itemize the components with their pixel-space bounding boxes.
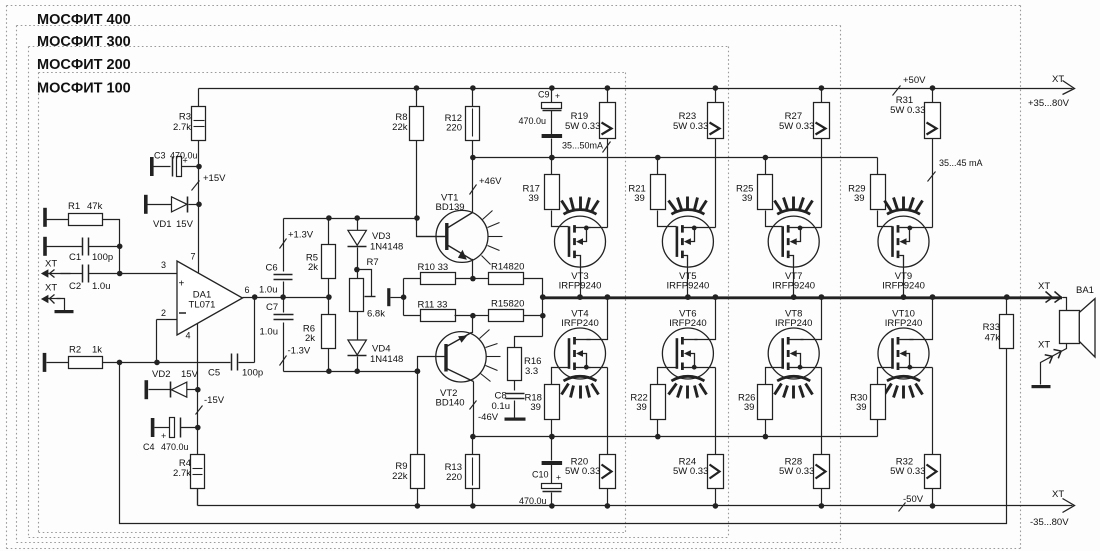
svg-text:+1.3V: +1.3V [288, 230, 314, 241]
svg-text:IRFP9240: IRFP9240 [559, 280, 602, 291]
svg-text:C5: C5 [208, 368, 220, 379]
svg-text:820: 820 [509, 262, 525, 273]
svg-text:5W 0.33: 5W 0.33 [565, 466, 600, 477]
svg-text:5W 0.33: 5W 0.33 [890, 466, 925, 477]
svg-text:2.7k: 2.7k [173, 468, 191, 479]
svg-text:VD2: VD2 [152, 369, 170, 380]
svg-text:22k: 22k [392, 122, 408, 133]
svg-text:5W 0.33: 5W 0.33 [673, 466, 708, 477]
svg-text:BA1: BA1 [1076, 285, 1094, 296]
svg-text:470.0u: 470.0u [519, 496, 547, 506]
svg-text:BD139: BD139 [436, 202, 465, 213]
svg-text:-50V: -50V [903, 494, 924, 505]
svg-text:C1: C1 [69, 252, 81, 263]
svg-text:МОСФИТ 100: МОСФИТ 100 [37, 81, 131, 97]
svg-text:5W 0.33: 5W 0.33 [565, 121, 600, 132]
svg-text:39: 39 [856, 402, 867, 413]
svg-text:-15V: -15V [204, 395, 225, 406]
svg-text:47k: 47k [985, 333, 1001, 344]
svg-text:XT: XT [1052, 74, 1064, 85]
svg-text:220: 220 [446, 123, 462, 134]
svg-text:IRFP9240: IRFP9240 [772, 280, 815, 291]
svg-text:1N4148: 1N4148 [370, 242, 403, 253]
svg-text:1.0u: 1.0u [259, 285, 278, 296]
svg-text:R2: R2 [69, 345, 81, 356]
svg-text:3: 3 [161, 260, 166, 270]
svg-text:BD140: BD140 [436, 398, 465, 409]
svg-text:R11 33: R11 33 [418, 300, 448, 311]
svg-text:15V: 15V [176, 219, 194, 230]
svg-text:XT: XT [45, 283, 57, 294]
svg-text:IRFP9240: IRFP9240 [882, 280, 925, 291]
svg-text:+46V: +46V [479, 176, 502, 187]
svg-text:4: 4 [186, 331, 191, 341]
svg-text:2k: 2k [308, 262, 318, 273]
svg-text:7: 7 [191, 252, 196, 262]
svg-text:0.1u: 0.1u [492, 401, 511, 412]
svg-text:-1.3V: -1.3V [288, 346, 311, 357]
svg-text:1k: 1k [92, 345, 102, 356]
svg-text:1.0u: 1.0u [92, 281, 111, 292]
svg-text:3.3: 3.3 [525, 366, 538, 377]
svg-text:VD4: VD4 [372, 344, 390, 355]
svg-text:+: + [556, 472, 561, 482]
svg-text:XT: XT [1052, 489, 1064, 500]
svg-text:470.0u: 470.0u [519, 116, 547, 126]
svg-text:+: + [555, 91, 560, 101]
svg-text:VD1: VD1 [153, 219, 171, 230]
svg-text:C9: C9 [538, 90, 550, 100]
svg-text:TL071: TL071 [189, 300, 216, 311]
svg-text:2k: 2k [305, 333, 315, 344]
svg-text:IRFP9240: IRFP9240 [667, 280, 710, 291]
svg-text:39: 39 [854, 193, 865, 204]
svg-text:2.7k: 2.7k [173, 122, 191, 133]
svg-text:39: 39 [742, 193, 753, 204]
svg-text:R1: R1 [68, 201, 80, 212]
svg-text:15V: 15V [181, 369, 199, 380]
svg-text:C10: C10 [532, 470, 549, 480]
svg-text:1.0u: 1.0u [260, 327, 279, 338]
svg-text:+: + [179, 279, 185, 290]
svg-text:2: 2 [161, 308, 166, 318]
svg-text:XT: XT [1038, 340, 1050, 351]
svg-text:+35...80V: +35...80V [1028, 98, 1070, 109]
svg-text:C7: C7 [266, 302, 278, 313]
svg-text:+50V: +50V [903, 75, 926, 86]
svg-text:5W 0.33: 5W 0.33 [779, 121, 814, 132]
svg-text:C4: C4 [143, 442, 155, 452]
svg-text:C3: C3 [154, 151, 166, 161]
svg-text:R3: R3 [179, 112, 191, 123]
svg-text:XT: XT [45, 259, 57, 270]
svg-text:R14: R14 [491, 262, 508, 273]
svg-text:+: + [161, 431, 166, 441]
svg-text:МОСФИТ 200: МОСФИТ 200 [37, 57, 131, 73]
svg-text:220: 220 [446, 472, 462, 483]
svg-text:XT: XT [1038, 281, 1050, 292]
svg-text:470.0u: 470.0u [161, 442, 189, 452]
svg-text:C6: C6 [266, 262, 278, 273]
svg-text:5W 0.33: 5W 0.33 [673, 121, 708, 132]
svg-text:39: 39 [636, 402, 647, 413]
svg-text:5W 0.33: 5W 0.33 [890, 105, 925, 116]
svg-text:39: 39 [528, 193, 539, 204]
svg-text:R15: R15 [491, 299, 508, 310]
svg-text:-46V: -46V [478, 412, 499, 423]
svg-text:МОСФИТ 400: МОСФИТ 400 [37, 12, 131, 28]
svg-text:35...50mA: 35...50mA [562, 141, 603, 151]
svg-text:-35...80V: -35...80V [1030, 517, 1069, 528]
svg-text:R10 33: R10 33 [418, 262, 449, 273]
svg-text:100p: 100p [92, 252, 113, 263]
svg-text:C2: C2 [69, 281, 81, 292]
svg-text:5W 0.33: 5W 0.33 [779, 466, 814, 477]
svg-text:35...45 mA: 35...45 mA [939, 158, 983, 168]
svg-text:820: 820 [509, 299, 525, 310]
svg-text:100p: 100p [242, 368, 263, 379]
svg-text:470.0u: 470.0u [170, 151, 198, 161]
svg-text:39: 39 [530, 402, 541, 413]
svg-text:VD3: VD3 [372, 231, 390, 242]
svg-text:22k: 22k [392, 471, 408, 482]
svg-text:6: 6 [245, 285, 250, 295]
svg-text:R33: R33 [983, 322, 1000, 333]
svg-text:+15V: +15V [203, 173, 226, 184]
svg-text:6.8k: 6.8k [367, 309, 385, 320]
svg-text:47k: 47k [87, 201, 103, 212]
svg-text:39: 39 [744, 402, 755, 413]
svg-text:МОСФИТ 300: МОСФИТ 300 [37, 34, 131, 50]
svg-text:39: 39 [634, 193, 645, 204]
svg-text:1N4148: 1N4148 [370, 354, 403, 365]
svg-text:R7: R7 [367, 257, 379, 268]
